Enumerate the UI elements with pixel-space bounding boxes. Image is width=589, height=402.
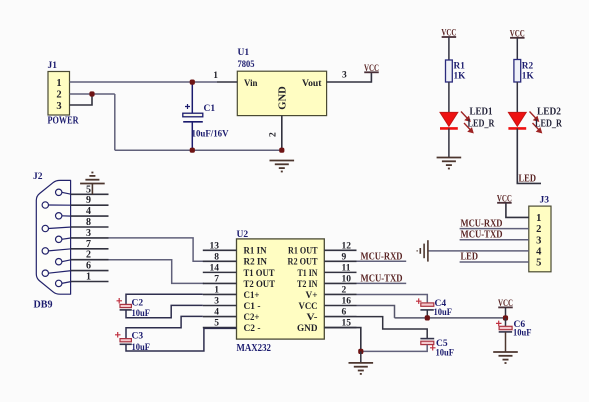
svg-text:7805: 7805 — [238, 60, 255, 70]
U2 left pin 8 (R2 IN) — [203, 252, 267, 267]
wire U2 pin9 R1OUT net MCU-RXD — [357, 260, 407, 262]
power VCC above R2 — [510, 28, 525, 38]
wire R2 to LED2 — [516, 82, 518, 112]
svg-text:LED1: LED1 — [470, 107, 493, 118]
svg-text:11: 11 — [342, 263, 351, 273]
C6 bottom plate — [499, 331, 512, 333]
wire C5 bottom to ground rail — [361, 345, 427, 352]
wire sideways ground to J3 pin4 — [428, 250, 529, 252]
LED1 (LED_R) — [440, 107, 495, 133]
power VCC above R1 — [441, 28, 456, 38]
svg-text:VCC: VCC — [498, 298, 513, 308]
J2 pin 8 — [42, 217, 108, 232]
svg-text:MAX232: MAX232 — [237, 343, 272, 354]
C2 bottom plate — [120, 309, 132, 311]
svg-text:3: 3 — [342, 71, 347, 81]
svg-text:3: 3 — [56, 101, 61, 112]
U2 right pin 15 (GND) — [297, 319, 357, 334]
capacitor C6 10uF — [496, 320, 532, 339]
svg-text:12: 12 — [342, 241, 352, 251]
svg-text:13: 13 — [210, 241, 220, 251]
svg-text:LED2: LED2 — [537, 107, 561, 118]
U1 pin 3 stub — [327, 81, 372, 83]
svg-text:7: 7 — [214, 274, 219, 284]
capacitor C2 10uF — [117, 298, 151, 319]
power VCC at J3 pin1 — [497, 193, 512, 203]
C6 top plate — [499, 326, 512, 329]
svg-text:C1: C1 — [204, 104, 216, 114]
resistor R1 1K — [446, 60, 467, 82]
svg-text:Vout: Vout — [302, 78, 322, 89]
svg-text:VCC: VCC — [510, 28, 525, 38]
wire U2 pin1 row to C2 top — [202, 294, 204, 296]
svg-text:V+: V+ — [306, 290, 318, 301]
connector J1 (POWER) — [48, 61, 80, 127]
svg-text:T1 OUT: T1 OUT — [244, 268, 275, 279]
ground above J2 pin 5 — [80, 173, 105, 195]
svg-text:R2 OUT: R2 OUT — [288, 257, 318, 268]
svg-text:VCC: VCC — [299, 301, 318, 312]
wire junction to C6 top — [505, 318, 507, 326]
wire U2 pin1 C1+ to C2 — [202, 249, 204, 251]
svg-text:VCC: VCC — [364, 63, 379, 73]
wire junction to ground — [360, 351, 362, 363]
U2 right pin 2 (V+) — [306, 285, 357, 300]
svg-text:8: 8 — [214, 252, 219, 262]
C2 plus sign — [117, 298, 123, 304]
svg-text:R1 IN: R1 IN — [244, 246, 267, 257]
svg-text:U2: U2 — [237, 230, 249, 240]
svg-text:LED_R: LED_R — [535, 119, 563, 130]
svg-text:1: 1 — [214, 285, 219, 295]
U2 right pin 12 (R1 OUT) — [288, 241, 357, 256]
wire VCC to J3 pin1 — [506, 203, 529, 218]
U2 right pin 16 (VCC) — [299, 297, 357, 312]
svg-text:J3: J3 — [540, 196, 550, 206]
junction at J1 pin2/pin3 — [89, 91, 94, 96]
U2 left pin 13 (R1 IN) — [203, 241, 267, 256]
wire J2 pin2 to U2 T2OUT — [109, 260, 205, 284]
svg-text:14: 14 — [210, 263, 220, 273]
svg-text:T2 IN: T2 IN — [297, 279, 318, 290]
wire VCC to R1 — [448, 37, 450, 60]
U2 left pin 1 (C1+) — [203, 285, 260, 300]
svg-text:10uF: 10uF — [434, 308, 453, 318]
svg-text:R2 IN: R2 IN — [244, 257, 268, 268]
svg-text:2: 2 — [342, 285, 347, 295]
wire U2 pin2 V+ to C4 — [357, 295, 428, 303]
resistor R2 1K — [514, 60, 535, 83]
svg-text:2: 2 — [56, 90, 61, 101]
capacitor C1 10uF/16V — [183, 80, 229, 153]
svg-text:5: 5 — [536, 258, 541, 269]
svg-text:MCU-RXD: MCU-RXD — [461, 218, 503, 229]
svg-text:R1 OUT: R1 OUT — [288, 246, 318, 257]
svg-text:C3: C3 — [132, 332, 144, 342]
svg-text:9: 9 — [342, 252, 347, 262]
svg-text:MCU-RXD: MCU-RXD — [361, 251, 403, 262]
svg-text:1: 1 — [86, 272, 91, 283]
wire ground rail to U1 GND — [115, 149, 282, 151]
svg-text:C2 -: C2 - — [244, 323, 261, 334]
U2 left pin 14 (T1 OUT) — [203, 263, 275, 278]
ground below U2 — [349, 363, 374, 374]
svg-text:1K: 1K — [454, 72, 467, 82]
svg-text:4: 4 — [86, 206, 91, 217]
C5 plus sign — [430, 345, 436, 351]
svg-text:8: 8 — [86, 217, 91, 228]
ground (sideways) at J3 pin4 — [417, 240, 428, 261]
svg-text:MCU-TXD: MCU-TXD — [461, 230, 503, 241]
svg-text:VCC: VCC — [497, 193, 512, 203]
wire C2 bottom to U2 pin3 C1- — [126, 305, 203, 317]
U2 right pin 10 (T2 IN) — [297, 274, 357, 289]
svg-text:MCU-TXD: MCU-TXD — [361, 273, 403, 284]
svg-text:1: 1 — [536, 213, 541, 224]
svg-text:2: 2 — [269, 132, 279, 137]
junction VCC / C6 — [503, 315, 508, 320]
junction ground rail — [358, 349, 363, 354]
ground below C6 — [493, 352, 518, 363]
svg-text:4: 4 — [214, 308, 219, 318]
svg-text:C1 -: C1 - — [244, 301, 261, 312]
U1 pin 1 stub — [217, 81, 237, 83]
junction C4 bottom — [425, 315, 430, 320]
C4 plus sign — [416, 298, 422, 304]
svg-text:4: 4 — [536, 247, 542, 258]
J2 pin 3 — [56, 228, 109, 243]
wire net MCU-RXD to J3 pin2 — [460, 228, 529, 230]
capacitor C4 10uF — [416, 298, 452, 318]
svg-text:10: 10 — [342, 274, 352, 284]
J2 pin 1 — [56, 272, 109, 287]
wire VCC to junction — [505, 307, 507, 318]
svg-text:LED_R: LED_R — [468, 119, 496, 130]
connector J2 (DB9) — [33, 172, 71, 311]
svg-text:2: 2 — [86, 250, 91, 261]
power VCC at U1 output — [364, 63, 379, 73]
C3 top plate — [120, 339, 131, 342]
wire J1 pin3 jog up to pin2 net — [70, 94, 93, 105]
wire net LED to J3 pin5 — [460, 261, 529, 263]
LED2 (LED_R) — [508, 107, 562, 133]
svg-text:C2: C2 — [132, 299, 144, 309]
wire J1 pin2 to vertical drop — [70, 93, 115, 95]
svg-text:7: 7 — [86, 239, 91, 250]
svg-text:5: 5 — [86, 184, 91, 195]
C2 top plate — [120, 304, 131, 307]
svg-text:V-: V- — [307, 312, 318, 323]
wire net MCU-TXD to J3 pin3 — [460, 239, 529, 241]
connector J3 — [529, 196, 551, 272]
wire U2 pin16 VCC jog down — [357, 306, 395, 318]
C4 top plate — [421, 303, 434, 306]
J2 pin 4 — [56, 206, 109, 219]
C5 bottom plate — [421, 341, 434, 344]
U1 pin 2 (GND) stem — [281, 116, 283, 151]
svg-text:LED: LED — [519, 174, 537, 185]
svg-text:1K: 1K — [522, 72, 535, 82]
C1 bottom plate — [183, 121, 203, 123]
wire VCC rail to C6/VCC — [395, 317, 506, 319]
svg-text:10uF: 10uF — [436, 349, 455, 359]
svg-text:1: 1 — [213, 71, 218, 81]
C3 bottom plate — [120, 343, 132, 345]
wire C1 bottom stem — [191, 122, 193, 150]
svg-text:R1: R1 — [454, 62, 466, 72]
svg-text:10uF/16V: 10uF/16V — [192, 129, 229, 139]
svg-text:U1: U1 — [238, 48, 250, 58]
junction U1 ground — [279, 148, 284, 153]
wire U2 pin15 GND down — [324, 328, 361, 352]
svg-text:C1+: C1+ — [244, 290, 260, 301]
svg-text:6: 6 — [86, 261, 91, 272]
wire LED1 to ground — [448, 128, 450, 157]
C5 top plate — [420, 338, 434, 340]
LED2 light arrows — [530, 112, 542, 133]
svg-text:DB9: DB9 — [34, 300, 53, 311]
svg-text:6: 6 — [342, 308, 347, 318]
wire LED2 down to LED net stub — [517, 128, 541, 183]
J2 pin 5 — [56, 184, 109, 195]
wire J1 pin1 to U1 Vin — [70, 81, 218, 83]
J2 pin 2 — [56, 250, 109, 265]
C1 top plate — [183, 113, 203, 117]
power VCC above C6 — [498, 298, 513, 308]
svg-text:3: 3 — [214, 297, 219, 307]
wire U2 pin10 T2IN net MCU-TXD — [357, 282, 407, 284]
J2 pin 7 — [42, 239, 108, 254]
wire U2 pin6 V- to C5 top — [357, 317, 428, 339]
C3 plus sign — [115, 332, 121, 338]
svg-text:GND: GND — [277, 86, 289, 110]
wire U1 pin3 up to VCC — [370, 72, 372, 82]
wire C1 top stem — [191, 82, 193, 113]
svg-text:C2+: C2+ — [244, 312, 260, 323]
svg-text:16: 16 — [342, 297, 352, 307]
op-amp U2 MAX232 — [237, 230, 325, 354]
svg-text:3: 3 — [536, 235, 541, 246]
U2 right pin 11 (T1 IN) — [298, 263, 357, 278]
svg-text:10uF: 10uF — [513, 329, 532, 339]
svg-text:1: 1 — [56, 78, 61, 89]
op-amp U1 7805 regulator — [237, 48, 326, 116]
U2 left pin 4 (C2+) — [203, 308, 260, 323]
ground below LED1 — [437, 158, 462, 169]
wire vertical drop to ground rail — [114, 94, 116, 150]
junction C1 bottom — [190, 148, 195, 153]
wire R1 to LED1 — [448, 82, 450, 112]
wire C4 bottom stem — [426, 310, 428, 318]
svg-text:9: 9 — [86, 195, 91, 206]
wire J2 pin3 to U2 R2IN — [109, 238, 205, 261]
svg-text:Vin: Vin — [244, 78, 258, 89]
U2 left pin 5 (C2 -) — [203, 319, 261, 334]
svg-text:C5: C5 — [436, 339, 448, 349]
LED1 light arrows — [461, 112, 473, 133]
wire VCC to R2 — [516, 38, 518, 60]
wire C3 bottom to U2 pin5 C2- — [126, 328, 237, 351]
U2 left pin 7 (T2 OUT) — [203, 274, 276, 289]
svg-text:VCC: VCC — [441, 28, 456, 38]
svg-text:T2 OUT: T2 OUT — [244, 279, 276, 290]
svg-text:J2: J2 — [33, 172, 43, 182]
svg-text:5: 5 — [214, 319, 219, 329]
svg-text:J1: J1 — [48, 61, 58, 71]
svg-text:R2: R2 — [522, 62, 534, 72]
svg-text:T1 IN: T1 IN — [298, 268, 318, 279]
C1 plus sign — [185, 104, 190, 109]
ground below U1 — [270, 161, 295, 172]
C6 plus sign — [496, 321, 502, 327]
capacitor C5 10uF — [420, 339, 454, 359]
J2 pin 9 — [42, 195, 108, 208]
C4 bottom plate — [420, 309, 433, 311]
wire C6 to ground — [505, 332, 507, 352]
svg-text:GND: GND — [297, 323, 318, 334]
svg-text:2: 2 — [536, 224, 541, 235]
junction C1 top — [190, 80, 195, 85]
capacitor C3 10uF — [115, 332, 150, 354]
wire U2 pin4 C2+ to C3 top — [126, 316, 203, 338]
U2 left pin 3 (C1 -) — [203, 297, 261, 312]
U2 right pin 9 (R2 OUT) — [288, 252, 357, 267]
J2 pin 6 — [42, 261, 108, 277]
svg-text:LED: LED — [461, 252, 479, 263]
svg-text:POWER: POWER — [48, 116, 80, 127]
U2 right pin 6 (V-) — [307, 308, 357, 323]
svg-text:3: 3 — [86, 228, 91, 239]
